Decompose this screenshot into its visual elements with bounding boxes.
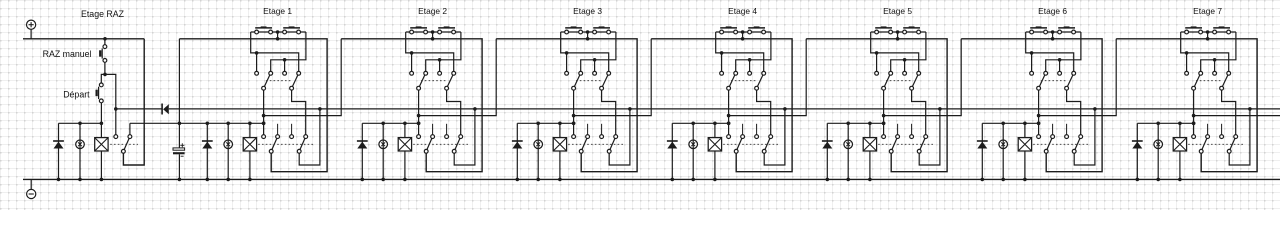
diode D7 <box>1136 123 1138 179</box>
switch arm: RAZ changeover <box>123 137 129 152</box>
terminals: upper bank throws Etage 4 <box>720 71 724 75</box>
switch arm: upper changeover 2 Etage 6 <box>1067 73 1074 88</box>
pushbutton RAZ manuel <box>101 48 103 58</box>
power terminal + (positive supply) <box>27 20 36 29</box>
wire: center stub to +rail Etage 6 <box>1052 32 1054 39</box>
diode D4 <box>671 123 673 179</box>
wire: left contact feed to line A Etage 3 <box>561 32 609 71</box>
linkage (dashed) relay K6 to contacts <box>1033 143 1088 145</box>
switch arm: lower changeover 1 Etage 5 <box>891 137 897 152</box>
relay contact K5b (make) bar <box>903 27 920 29</box>
switch arm: lower changeover 2 Etage 6 <box>1074 137 1081 152</box>
linkage (dashed) upper bank Etage 6 <box>1041 80 1068 82</box>
wire: component bus line Etage 7 <box>1137 122 1193 124</box>
wire: link lower common 2 to interrupt bus Etage 7 <box>1229 109 1250 165</box>
switch arm: lower changeover 2 Etage 5 <box>919 137 926 152</box>
relay coil K0 (Etage RAZ) <box>95 138 108 151</box>
wire: carry line to next stage Etage 2 <box>419 39 497 116</box>
relay contact K2a (make) bar <box>410 27 427 29</box>
switch arm: upper changeover 1 Etage 4 <box>729 73 736 88</box>
wire: common 1 drop Etage 2 <box>418 90 420 135</box>
wire: right contact feed to line B Etage 1 <box>271 32 306 71</box>
terminals: top contact circles Etage 3 <box>565 30 569 34</box>
terminals: upper bank commons Etage 2 <box>417 86 421 90</box>
terminals: top contact circles Etage 1 <box>255 30 259 34</box>
svg-text:Etage 6: Etage 6 <box>1038 6 1067 16</box>
terminals: upper bank throws Etage 1 <box>255 71 259 75</box>
wire: + terminal to top rail <box>30 29 32 39</box>
terminals: lower bank throws Etage 5 <box>882 135 886 139</box>
linkage (dashed) upper bank Etage 1 <box>266 80 293 82</box>
svg-text:Départ: Départ <box>63 90 90 100</box>
lamp H4 <box>689 140 698 149</box>
wire: - terminal stub <box>30 179 32 189</box>
switch arm: upper changeover 1 Etage 7 <box>1194 73 1201 88</box>
wire: RAZ component bus line <box>59 122 102 124</box>
relay coil K4 (Etage 4) <box>714 123 716 179</box>
relay coil K2 (Etage 2) <box>404 123 406 179</box>
wire: common 2 jog to lower throw 4 Etage 2 <box>447 90 461 135</box>
wire: dangling throw stubs lower bank Etage 2 <box>432 124 434 135</box>
diode D6 <box>981 123 983 179</box>
wire: stub line B to throw 3 Etage 6 <box>1059 60 1061 72</box>
wire: right contact feed to line B Etage 4 <box>736 32 771 71</box>
terminals: upper bank throws Etage 7 <box>1185 71 1189 75</box>
wire: stub line A to throw 1 Etage 5 <box>876 53 878 71</box>
wire: dangling throw stubs lower bank Etage 1 <box>277 124 279 135</box>
terminals: upper bank commons Etage 5 <box>882 86 886 90</box>
diode D2 <box>361 123 363 179</box>
terminals: top contact circles Etage 4 <box>720 30 724 34</box>
wire: - rail (bottom) <box>23 178 1280 180</box>
switch arm: upper changeover 2 Etage 5 <box>912 73 919 88</box>
switch arm: upper changeover 1 Etage 2 <box>419 73 426 88</box>
switch arm: lower changeover 1 Etage 4 <box>736 137 742 152</box>
wire: center stub to +rail Etage 5 <box>897 32 899 39</box>
wire: center stub to +rail Etage 3 <box>587 32 589 39</box>
wire: RAZ rail end drop to changeover common <box>123 39 144 165</box>
linkage (dashed) upper bank Etage 5 <box>886 80 913 82</box>
wire: link lower common 2 to interrupt bus Etage 4 <box>764 109 785 165</box>
wire: right contact feed to line B Etage 2 <box>426 32 461 71</box>
wire: top contact terminals row Etage 6 <box>1026 31 1081 33</box>
terminals: upper bank throws Etage 5 <box>875 71 879 75</box>
terminals: upper bank commons Etage 4 <box>727 86 731 90</box>
wire: link lower common 2 to interrupt bus Etage 6 <box>1074 109 1095 165</box>
relay contact K6a (make) bar <box>1030 27 1047 29</box>
wire: right contact feed to line B Etage 5 <box>891 32 926 71</box>
node: Etage 3 +rail segment with right-side drop to reset contact <box>496 39 637 172</box>
switch arm: lower changeover 1 Etage 7 <box>1201 137 1207 152</box>
wire: stub line A to throw 1 Etage 6 <box>1031 53 1033 71</box>
terminals: lower bank throws Etage 2 <box>417 135 421 139</box>
wire: capacitor to - rail <box>178 154 180 179</box>
wire: common 2 jog to lower throw 4 Etage 1 <box>292 90 306 135</box>
wire: stub line B to throw 3 Etage 3 <box>594 60 596 72</box>
relay contact K3b (make) bar <box>593 27 610 29</box>
switch arm: lower changeover 1 Etage 3 <box>581 137 587 152</box>
terminals: lower bank throws Etage 4 <box>727 135 731 139</box>
svg-text:Etage 7: Etage 7 <box>1193 6 1222 16</box>
svg-text:Etage RAZ: Etage RAZ <box>81 9 125 19</box>
wire: junction to Depart button <box>101 74 105 83</box>
linkage (dashed) upper bank Etage 3 <box>576 80 603 82</box>
switch arm: lower changeover 1 Etage 2 <box>426 137 432 152</box>
terminals: RAZ changeover <box>114 135 118 139</box>
terminals: upper bank commons Etage 3 <box>572 86 576 90</box>
wire: common 2 jog to lower throw 4 Etage 6 <box>1067 90 1081 135</box>
relay coil K6 (Etage 6) <box>1024 123 1026 179</box>
relay coil K1 (Etage 1) <box>249 123 251 179</box>
wire: component bus line Etage 5 <box>827 122 883 124</box>
linkage (dashed) upper bank Etage 2 <box>421 80 448 82</box>
wire: component bus line Etage 6 <box>982 122 1038 124</box>
wire: top contact terminals row Etage 3 <box>561 31 616 33</box>
switch arm: upper changeover 1 Etage 6 <box>1039 73 1046 88</box>
wire: common 1 drop Etage 4 <box>728 90 730 135</box>
wire: link lower common 2 to interrupt bus Etage 5 <box>919 109 940 165</box>
wire: center stub to +rail Etage 2 <box>432 32 434 39</box>
wire: component bus line Etage 2 <box>362 122 418 124</box>
node: Etage 7 +rail segment with right-side drop to reset contact <box>1116 39 1257 172</box>
linkage (dashed) relay K5 to contacts <box>878 143 933 145</box>
switch arm: lower changeover 1 Etage 1 <box>271 137 277 152</box>
lamp H3 <box>534 140 543 149</box>
wire: left contact feed to line A Etage 4 <box>716 32 764 71</box>
svg-text:Etage 1: Etage 1 <box>263 6 292 16</box>
switch arm: upper changeover 2 Etage 2 <box>447 73 454 88</box>
wire: left contact feed to line A Etage 5 <box>871 32 919 71</box>
relay contact K2b (make) bar <box>438 27 455 29</box>
wire: stub line A to throw 1 Etage 4 <box>721 53 723 71</box>
terminals: lower bank commons Etage 4 <box>734 149 738 153</box>
terminals: lower bank throws Etage 3 <box>572 135 576 139</box>
switch arm: upper changeover 2 Etage 7 <box>1222 73 1229 88</box>
wire: stub line B to throw 3 Etage 1 <box>284 60 286 72</box>
diode D1 <box>206 123 208 179</box>
terminals: lower bank commons Etage 3 <box>579 149 583 153</box>
node: Etage 5 +rail segment with right-side drop to reset contact <box>806 39 947 172</box>
switch arm: lower changeover 2 Etage 1 <box>299 137 306 152</box>
wire: link lower common 2 to interrupt bus Etage 1 <box>299 109 320 165</box>
wire: left contact feed to line A Etage 6 <box>1026 32 1074 71</box>
wire: common 2 jog to lower throw 4 Etage 3 <box>602 90 616 135</box>
switch arm: lower changeover 2 Etage 2 <box>454 137 461 152</box>
relay contact K4a (make) bar <box>720 27 737 29</box>
wire: dangling throw stubs lower bank Etage 3 <box>587 124 589 135</box>
wire: dangling throw stubs lower bank Etage 5 <box>897 124 899 135</box>
relay contact K7a (make) bar <box>1185 27 1202 29</box>
wire: dangling throw stubs lower bank Etage 6 <box>1052 124 1054 135</box>
terminals: upper bank commons Etage 7 <box>1192 86 1196 90</box>
wire: stub line B to throw 3 Etage 2 <box>439 60 441 72</box>
linkage (dashed) relay K2 to contacts <box>413 143 468 145</box>
wire: common 2 jog to lower throw 4 Etage 4 <box>757 90 771 135</box>
pushbutton Départ <box>98 87 100 99</box>
wire: common 1 drop Etage 7 <box>1193 90 1195 135</box>
relay contact K1b (make) bar <box>283 27 300 29</box>
terminals: upper bank throws Etage 6 <box>1030 71 1034 75</box>
lamp H2 <box>379 140 388 149</box>
wire: left contact feed to line A Etage 1 <box>251 32 299 71</box>
switch arm: upper changeover 2 Etage 3 <box>602 73 609 88</box>
switch arm: upper changeover 1 Etage 3 <box>574 73 581 88</box>
wire: stub line A to throw 1 Etage 3 <box>566 53 568 71</box>
switch arm: lower changeover 2 Etage 7 <box>1229 137 1236 152</box>
node: Etage 6 +rail segment with right-side drop to reset contact <box>961 39 1102 172</box>
power terminal - (negative supply) <box>27 189 36 198</box>
wire: left contact feed to line A Etage 2 <box>406 32 454 71</box>
terminals: lower bank throws Etage 7 <box>1192 135 1196 139</box>
relay coil K3 (Etage 3) <box>559 123 561 179</box>
relay contact K5a (make) bar <box>875 27 892 29</box>
svg-text:Etage 4: Etage 4 <box>728 6 757 16</box>
svg-text:Etage 2: Etage 2 <box>418 6 447 16</box>
relay contact K6b (make) bar <box>1058 27 1075 29</box>
wire: component bus line Etage 1 <box>130 122 264 124</box>
wire: common 1 drop Etage 5 <box>883 90 885 135</box>
terminals: upper bank commons Etage 6 <box>1037 86 1041 90</box>
wire: Etage 1 rail riser and capacitor feed <box>178 39 180 148</box>
linkage (dashed) relay K4 to contacts <box>723 143 778 145</box>
switch arm: upper changeover 2 Etage 1 <box>292 73 299 88</box>
lamp H0 (Etage RAZ) <box>76 140 85 149</box>
wire: carry line to next stage Etage 4 <box>729 39 807 116</box>
switch arm: upper changeover 1 Etage 5 <box>884 73 891 88</box>
wire: center stub to +rail Etage 1 <box>277 32 279 39</box>
wire: common 2 jog to lower throw 4 Etage 7 <box>1222 90 1236 135</box>
wire: left contact feed to line A Etage 7 <box>1181 32 1229 71</box>
terminals: upper bank throws Etage 2 <box>410 71 414 75</box>
wire: stub line B to throw 3 Etage 7 <box>1214 60 1216 72</box>
wire: top contact terminals row Etage 5 <box>871 31 926 33</box>
capacitor C1 (electrolytic) <box>173 148 185 150</box>
wire: component bus line Etage 3 <box>517 122 573 124</box>
linkage (dashed) relay K3 to contacts <box>568 143 623 145</box>
switch arm: lower changeover 1 Etage 6 <box>1046 137 1052 152</box>
terminals: lower bank commons Etage 5 <box>889 149 893 153</box>
wire: top contact terminals row Etage 4 <box>716 31 771 33</box>
node: Etage 1 +rail segment with right-side drop to reset contact <box>179 39 327 172</box>
wire: stub line B to throw 3 Etage 4 <box>749 60 751 72</box>
relay coil K7 (Etage 7) <box>1179 123 1181 179</box>
wire: throw 2 riser to Etage 1 line <box>129 123 131 135</box>
lamp H1 <box>224 140 233 149</box>
svg-text:RAZ manuel: RAZ manuel <box>43 49 92 59</box>
wire: common 1 drop Etage 1 <box>263 90 265 135</box>
terminals: lower bank throws Etage 6 <box>1037 135 1041 139</box>
diode D3 <box>516 123 518 179</box>
wire: link lower common 2 to interrupt bus Etage 3 <box>609 109 630 165</box>
relay contact K1a (make) bar <box>255 27 272 29</box>
linkage (dashed) upper bank Etage 7 <box>1196 80 1223 82</box>
wire: common 1 drop Etage 3 <box>573 90 575 135</box>
wire: interrupt bus (common stop line) <box>169 108 1280 110</box>
linkage (dashed) relay K7 to contacts <box>1188 143 1243 145</box>
svg-text:Etage 5: Etage 5 <box>883 6 912 16</box>
wire: rail to RAZ manuel button <box>104 39 106 45</box>
wire: top contact terminals row Etage 1 <box>251 31 306 33</box>
wire: common 2 jog to lower throw 4 Etage 5 <box>912 90 926 135</box>
svg-text:Etage 3: Etage 3 <box>573 6 602 16</box>
wire: stub line A to throw 1 Etage 7 <box>1186 53 1188 71</box>
wire: carry line to next stage Etage 6 <box>1039 39 1117 116</box>
terminals: lower bank throws Etage 1 <box>262 135 266 139</box>
relay contact K7b (make) bar <box>1213 27 1230 29</box>
wire: top contact terminals row Etage 7 <box>1181 31 1236 33</box>
terminals: upper bank throws Etage 3 <box>565 71 569 75</box>
terminals: upper bank commons Etage 1 <box>262 86 266 90</box>
wire: stub line A to throw 1 Etage 1 <box>256 53 258 71</box>
wire: top contact terminals row Etage 2 <box>406 31 461 33</box>
terminals: lower bank commons Etage 7 <box>1199 149 1203 153</box>
linkage (dashed) upper bank Etage 4 <box>731 80 758 82</box>
terminals: lower bank commons Etage 1 <box>269 149 273 153</box>
switch arm: upper changeover 2 Etage 4 <box>757 73 764 88</box>
terminals: top contact circles Etage 6 <box>1030 30 1034 34</box>
relay coil K5 (Etage 5) <box>869 123 871 179</box>
linkage (dashed) relay K0 to contact <box>110 143 138 145</box>
wire: Depart to RAZ coil <box>100 103 102 138</box>
wire: interrupt bus to steering diode <box>116 108 162 110</box>
linkage (dashed) relay K1 to contacts <box>258 143 313 145</box>
wire: center stub to +rail Etage 4 <box>742 32 744 39</box>
wire: center stub to +rail Etage 7 <box>1207 32 1209 39</box>
diode D5 <box>826 123 828 179</box>
switch arm: lower changeover 2 Etage 4 <box>764 137 771 152</box>
wire: RAZ manuel to junction <box>104 62 106 74</box>
wire: dangling throw stubs lower bank Etage 7 <box>1207 124 1209 135</box>
wire: link lower common 2 to interrupt bus Etage 2 <box>454 109 475 165</box>
terminals: top contact circles Etage 7 <box>1185 30 1189 34</box>
relay contact K4b (make) bar <box>748 27 765 29</box>
terminals: top contact circles Etage 5 <box>875 30 879 34</box>
wire: right contact feed to line B Etage 6 <box>1046 32 1081 71</box>
wire: stub line A to throw 1 Etage 2 <box>411 53 413 71</box>
switch arm: upper changeover 1 Etage 1 <box>264 73 271 88</box>
wire: right contact feed to line B Etage 7 <box>1201 32 1236 71</box>
lamp H7 <box>1154 140 1163 149</box>
lamp H6 <box>999 140 1008 149</box>
wire: carry line to next stage Etage 7 <box>1194 115 1280 117</box>
node: Etage 4 +rail segment with right-side drop to reset contact <box>651 39 792 172</box>
steering diode D8 (horizontal) <box>161 104 163 115</box>
diode D0 (Etage RAZ) <box>58 123 60 179</box>
node: Etage 2 +rail segment with right-side drop to reset contact <box>341 39 482 172</box>
terminals: lower bank commons Etage 2 <box>424 149 428 153</box>
switch arm: lower changeover 2 Etage 3 <box>609 137 616 152</box>
wire: carry line to next stage Etage 1 <box>264 39 342 116</box>
terminals: lower bank commons Etage 6 <box>1044 149 1048 153</box>
wire: component bus line Etage 4 <box>672 122 728 124</box>
wire: right contact feed to line B Etage 3 <box>581 32 616 71</box>
wire: common 1 drop Etage 6 <box>1038 90 1040 135</box>
wire: carry line to next stage Etage 5 <box>884 39 962 116</box>
wire: dangling throw stubs lower bank Etage 4 <box>742 124 744 135</box>
wire: carry line to next stage Etage 3 <box>574 39 652 116</box>
wire: junction jog to reset throw 1 drop <box>105 74 116 134</box>
lamp H5 <box>844 140 853 149</box>
relay contact K3a (make) bar <box>565 27 582 29</box>
wire: +rail segment Etage RAZ <box>23 38 144 40</box>
terminals: top contact circles Etage 2 <box>410 30 414 34</box>
wire: stub line B to throw 3 Etage 5 <box>904 60 906 72</box>
